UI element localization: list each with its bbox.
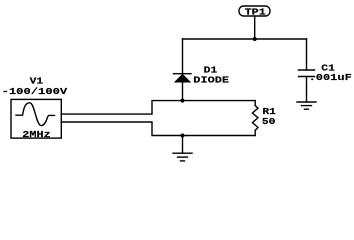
- wire bottom rail to ground: [182, 136, 184, 154]
- wire top rail: [183, 38, 307, 40]
- ground (main): [173, 153, 192, 161]
- voltage source V1: [2, 76, 68, 140]
- wire diode anode branch: [182, 39, 184, 74]
- svg-text:-100/100V: -100/100V: [2, 86, 68, 97]
- svg-text:2MHz: 2MHz: [22, 129, 50, 140]
- wire capacitor branch vertical: [306, 39, 308, 70]
- wire V1 bottom lead to loop: [61, 122, 255, 136]
- wire capacitor to ground: [306, 77, 308, 103]
- svg-text:V1: V1: [30, 76, 44, 87]
- resistor R1: [252, 101, 276, 136]
- wire V1 top lead to loop: [61, 101, 255, 115]
- diode D1: [174, 65, 230, 86]
- svg-text:50: 50: [262, 116, 276, 127]
- test point TP1: [239, 6, 270, 18]
- node junction bottom rail / ground: [181, 134, 185, 138]
- svg-text:.001uF: .001uF: [309, 72, 353, 83]
- node junction diode / top loop rail: [181, 99, 185, 103]
- ground (capacitor): [297, 102, 316, 109]
- wire diode cathode to loop: [182, 82, 184, 101]
- capacitor C1: [299, 63, 353, 84]
- svg-text:DIODE: DIODE: [193, 74, 229, 85]
- wire TP1 stub: [254, 16, 256, 39]
- node junction at TP1 on top rail: [253, 37, 257, 41]
